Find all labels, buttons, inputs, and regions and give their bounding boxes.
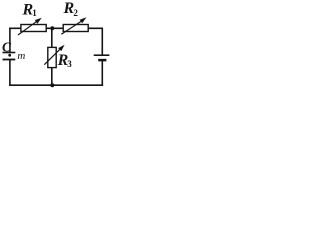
- node junction top: [50, 26, 54, 30]
- svg-text:1: 1: [32, 8, 37, 18]
- resistor R2: [61, 0, 88, 34]
- label C: [2, 39, 12, 54]
- wire middle branch lower: [51, 67, 53, 85]
- node junction bottom: [50, 83, 54, 87]
- label m: [17, 50, 25, 62]
- svg-text:3: 3: [67, 59, 72, 69]
- wire right lower (battery to bottom): [101, 61, 103, 86]
- svg-text:C: C: [2, 39, 12, 54]
- wire left upper (to capacitor): [9, 28, 11, 53]
- capacitor C plate top: [3, 52, 16, 54]
- resistor R1: [18, 1, 46, 35]
- svg-text:2: 2: [73, 8, 78, 18]
- wire middle branch upper: [51, 28, 53, 48]
- wire bottom: [9, 84, 103, 86]
- wire right upper (to battery): [101, 28, 103, 55]
- wire left lower (capacitor to bottom): [9, 60, 11, 86]
- particle dot: [8, 54, 11, 57]
- battery plate long: [94, 54, 110, 56]
- battery plate short: [98, 59, 106, 62]
- svg-text:m: m: [17, 50, 25, 62]
- capacitor C plate bottom: [3, 59, 16, 61]
- wire top: [9, 27, 103, 29]
- resistor R3: [44, 45, 72, 69]
